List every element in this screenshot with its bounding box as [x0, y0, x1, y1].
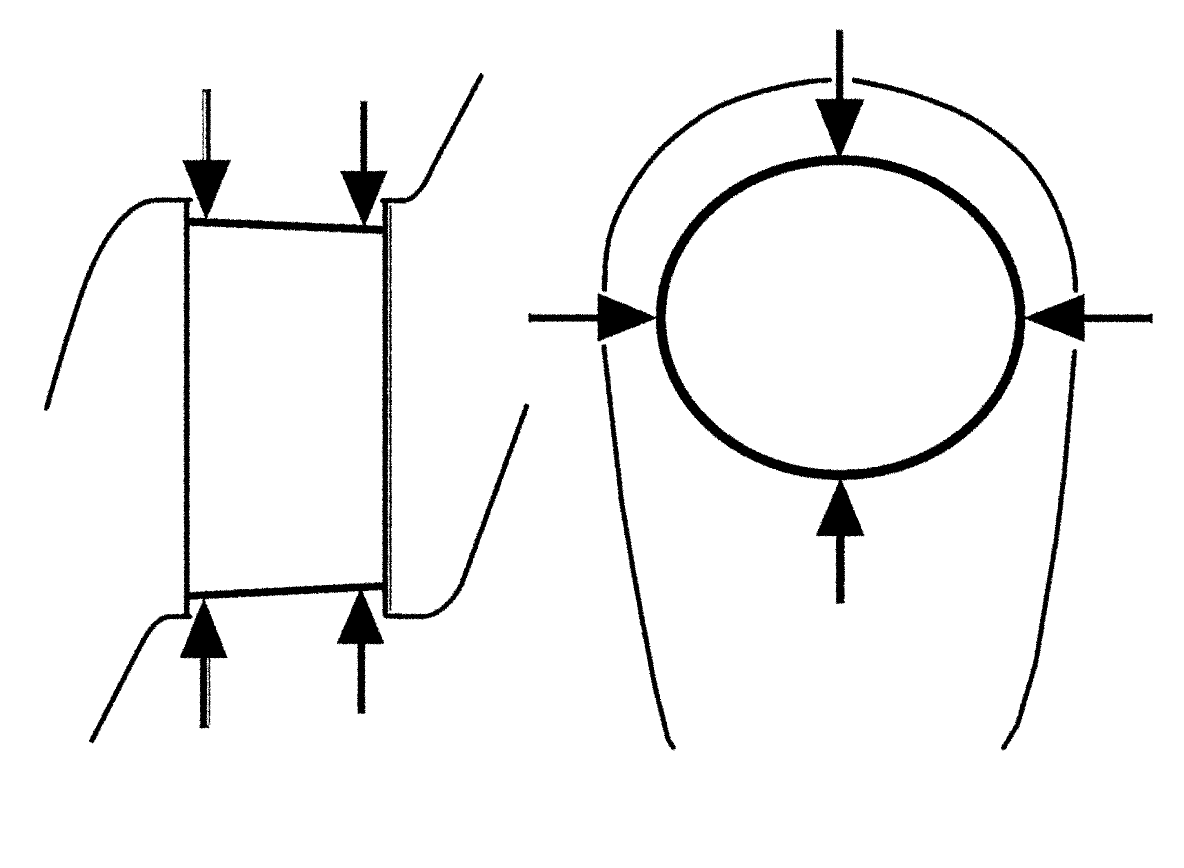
left view: clamped section right wall thin inner line [389, 205, 391, 610]
right view: outer shell right lower wall [1003, 351, 1074, 747]
arrow F3 bottom-left: shaft thin stroke [208, 657, 210, 725]
left view: tube outer wall lower-right flare [386, 406, 526, 616]
arrow F3 bottom-left: shaft bottom tick [199, 725, 208, 727]
arrow F8 bottom: shaft [835, 534, 843, 603]
arrow F3 bottom-left: head [179, 598, 227, 658]
arrow F2 top-right: head [340, 170, 388, 226]
arrow F6 left: head [597, 293, 657, 341]
left view: tube outer wall upper-left flare [46, 200, 190, 408]
arrow F6 left: shaft end serif [528, 313, 530, 322]
arrow F8 bottom: head [815, 477, 864, 535]
arrow F7 right: shaft end serif [1150, 313, 1152, 322]
left view: clamped section left wall [184, 199, 190, 619]
arrow F1 top-left: shaft top tick [202, 89, 211, 92]
arrow F1 top-left: head [182, 160, 230, 220]
arrow F1 top-left: shaft thick stroke [206, 91, 211, 163]
left view: compressed top edge [187, 221, 386, 230]
left view: tube outer wall upper-right flare [382, 76, 481, 201]
arrow F3 bottom-left: shaft thick stroke [200, 656, 207, 726]
arrow F1 top-left: shaft thin stroke [202, 91, 204, 160]
left view: compressed bottom edge [187, 586, 386, 596]
arrow F2 top-right: shaft [360, 100, 366, 172]
right view: compressed oval tube wall [660, 160, 1020, 475]
arrow F4 bottom-right: head [336, 588, 384, 644]
arrow F6 left: shaft [528, 314, 598, 321]
arrow F7 right: head [1023, 293, 1084, 341]
arrow F5 top: head [815, 99, 864, 159]
right view: outer shell arc upper-left segment [604, 80, 829, 290]
left view: clamped section right wall thick [382, 199, 387, 616]
right view: outer shell left lower wall [603, 346, 673, 747]
left view: tube outer wall lower-left flare [91, 616, 189, 740]
arrow F4 bottom-right: shaft [357, 642, 364, 713]
arrow F5 top: shaft [835, 30, 842, 102]
arrow F7 right: shaft [1083, 314, 1151, 321]
right view: outer shell arc upper-right segment [854, 80, 1076, 290]
